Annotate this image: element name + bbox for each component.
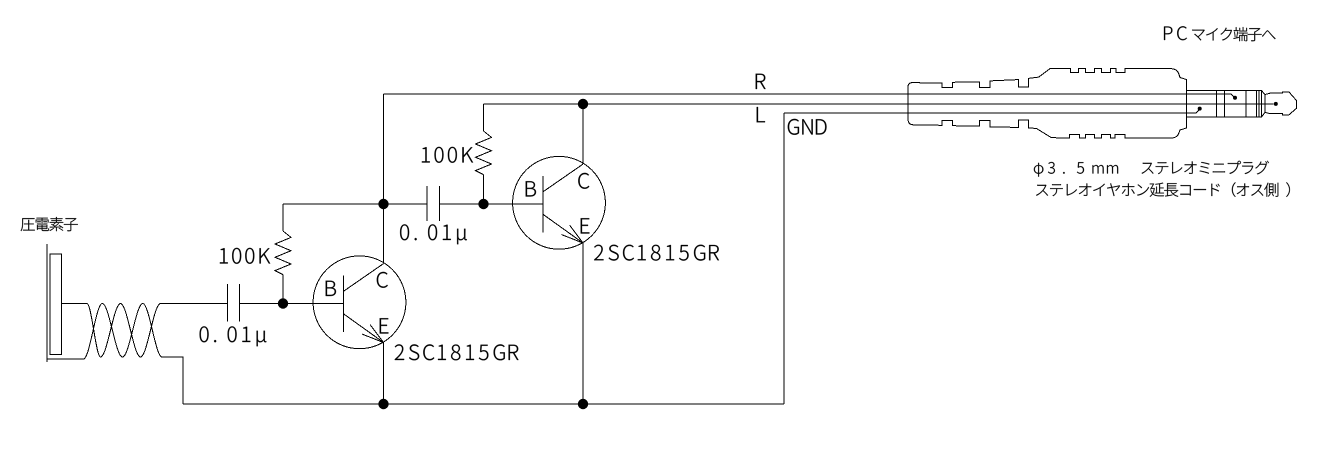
plug annotation line 2: ステレオイヤホン延長コード（オス側） [1036,182,1278,197]
twisted-pair cable strand (signal) [87,304,162,358]
node: junction of Q2 collector on L line [578,99,588,109]
wire: L line from R2 corner to plug tip [484,103,1274,105]
node: junction of C1 output and R1 bottom [278,298,288,308]
wire: mid rail from R1 corner to capacitor C2 [283,203,427,205]
transistor Q1 2SC1815GR (circle, base bar, collector, emitter with arrow) [313,256,406,349]
net label R [756,74,766,89]
resistor R1 zigzag body 100K [275,231,291,275]
3.5mm plug metal sleeve body [1186,90,1261,117]
capacitor C2 left plate [426,186,428,221]
node: L wire solder dot in plug tip [1274,102,1278,106]
transistor Q2 pin label B [526,181,536,196]
piezo element PZ1 ceramic disc (rectangle) [50,254,62,355]
node: R wire solder dot in plug [1233,96,1237,100]
plug insulator ring line 2 [1224,90,1226,117]
piezo element label 圧電素子 [21,217,78,231]
wire: Q1 emitter drop to ground rail [383,343,385,405]
capacitor C2 value label 0.01μ [400,224,467,244]
twisted-pair cable strand (ground) [84,304,163,360]
wire: ground riser up to GND line [783,113,785,404]
wire: GND line to plug sleeve contact [784,109,1200,113]
node: GND wire solder dot in plug sleeve [1198,107,1202,111]
node: junction of R2 bottom on mid rail [478,199,488,209]
transistor Q1 pin label C [377,272,388,288]
plug tip neck chamfer bottom [1262,113,1265,118]
net label GND [788,119,827,135]
3.5mm plug molded boot outline [908,69,1186,139]
wire: Q2 emitter drop to ground rail [582,243,584,404]
transistor Q1 pin label E [380,318,389,333]
wire: piezo hot lead to twisted cable [62,303,88,305]
plug tip neck chamfer top [1262,90,1265,94]
resistor R2 value label 100K [422,147,473,163]
piezo element PZ1 electrode plate (left line) [46,244,48,362]
capacitor C1 right plate [239,284,241,322]
capacitor C1 left plate [227,284,229,322]
node: junction of Q1 collector riser on mid rail [378,199,388,209]
transistor Q1 pin label B [326,281,336,296]
transistor Q2 2SC1815GR (circle, base bar, collector, emitter with arrow) [513,156,606,249]
plug destination label ＰＣマイク端子へ [1164,26,1187,40]
plug insulator ring line 1 [1215,90,1217,117]
wire: piezo ground lead under disc [47,358,84,360]
wire: C1 to Q1 base [240,303,344,305]
resistor R1 value label 100K [220,248,270,264]
wire: Q2 collector riser up to L line [582,104,584,164]
wire: cable ground to bottom rail corner [162,357,183,404]
resistor R2 bottom lead [483,175,485,204]
resistor R2 zigzag body 100K [476,131,492,175]
wire: R line to plug tip contact [384,94,1235,98]
capacitor C1 value label 0.01μ [200,326,267,346]
transistor Q2 pin label C [578,173,589,189]
plug annotation line 1: φ3.5mm [1034,162,1118,177]
wire: Q1 collector riser up to R line [383,94,385,264]
resistor R2 top lead from L line corner [483,104,485,131]
transistor Q1 part label 2SC1815GR [395,344,519,360]
plug tip outline [1265,92,1297,115]
resistor R1 top lead from mid wire corner [282,204,284,231]
plug insulator ring line 5 [1258,90,1260,117]
net label L [757,107,765,122]
transistor Q2 pin label E [581,218,590,233]
node: Q1 emitter junction on ground rail [378,399,388,409]
plug insulator ring line 3 [1245,90,1247,117]
wire: ground rail along bottom [183,403,784,405]
wire: C2 to Q2 base [439,203,543,205]
transistor Q2 part label 2SC1815GR [594,245,719,261]
resistor R1 bottom lead [282,275,284,304]
wire: cable signal to capacitor C1 [162,303,228,305]
plug insulator ring line 4 [1255,90,1257,117]
capacitor C2 right plate [438,186,440,221]
node: Q2 emitter junction on ground rail [578,399,588,409]
plug annotation line 1: ステレオミニプラグ [1142,161,1269,175]
